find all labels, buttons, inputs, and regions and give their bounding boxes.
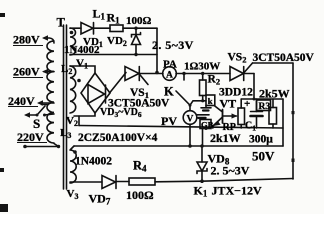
svg-text:VT: VT <box>220 97 237 111</box>
svg-text:2. 5~3V: 2. 5~3V <box>152 38 194 52</box>
svg-text:T: T <box>57 16 66 30</box>
svg-text:JTX−12V: JTX−12V <box>212 184 263 198</box>
svg-text:C1: C1 <box>245 121 256 133</box>
svg-text:260V: 260V <box>13 65 40 79</box>
svg-text:R1: R1 <box>107 11 121 26</box>
svg-text:50V: 50V <box>252 149 275 164</box>
svg-text:VD2: VD2 <box>107 35 127 48</box>
svg-text:L1: L1 <box>93 7 106 22</box>
svg-text:2k5W: 2k5W <box>259 87 290 101</box>
svg-text:V3: V3 <box>67 188 79 201</box>
svg-text:V: V <box>187 115 194 125</box>
svg-text:V1: V1 <box>76 58 88 71</box>
svg-text:100Ω: 100Ω <box>126 15 152 27</box>
svg-text:1Ω30W: 1Ω30W <box>184 61 220 73</box>
svg-text:k: k <box>208 96 213 106</box>
svg-text:2. 5~3V: 2. 5~3V <box>211 164 250 178</box>
svg-text:300μ: 300μ <box>249 134 273 146</box>
svg-text:3CT50A50V: 3CT50A50V <box>108 98 170 110</box>
svg-text:240V: 240V <box>8 94 35 108</box>
svg-text:2CZ50A100V×4: 2CZ50A100V×4 <box>78 132 158 144</box>
svg-text:K1: K1 <box>194 184 208 199</box>
svg-text:K: K <box>164 85 174 99</box>
svg-text:PV: PV <box>161 114 177 128</box>
svg-text:R4: R4 <box>133 159 147 174</box>
svg-text:280V: 280V <box>13 33 40 47</box>
svg-text:PA: PA <box>163 59 177 71</box>
svg-text:100Ω: 100Ω <box>126 188 154 202</box>
svg-text:R3: R3 <box>259 102 271 112</box>
svg-text:VD7: VD7 <box>89 192 111 207</box>
svg-text:3CT50A50V: 3CT50A50V <box>253 52 315 64</box>
svg-text:GB: GB <box>201 120 214 130</box>
svg-text:+: + <box>244 98 250 110</box>
svg-text:220V: 220V <box>17 130 44 144</box>
svg-text:A: A <box>166 71 173 81</box>
svg-text:S: S <box>33 116 40 131</box>
svg-text:2k1W: 2k1W <box>210 131 241 145</box>
svg-text:1N4002: 1N4002 <box>64 44 100 56</box>
svg-text:L2: L2 <box>61 63 72 76</box>
svg-text:V2: V2 <box>66 115 78 128</box>
svg-text:1N4002: 1N4002 <box>75 156 112 168</box>
svg-text:L3: L3 <box>60 127 71 140</box>
svg-text:VS2: VS2 <box>228 52 247 65</box>
svg-text:R2: R2 <box>208 74 221 87</box>
